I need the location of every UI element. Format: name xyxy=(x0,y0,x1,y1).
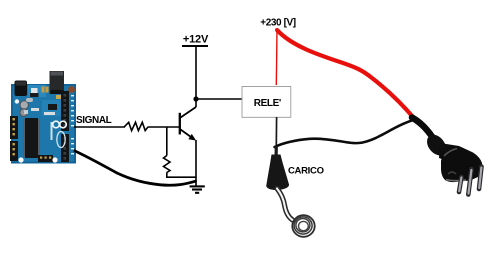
svg-text:RELE': RELE' xyxy=(254,98,281,109)
svg-text:+12V: +12V xyxy=(183,34,209,46)
mounting hole xyxy=(52,157,57,162)
+12V rail bar xyxy=(182,45,208,47)
ATmega IC xyxy=(23,119,26,157)
mounting hole xyxy=(18,157,23,162)
small parts xyxy=(31,108,39,111)
plug pin 1 xyxy=(459,177,462,192)
ARDUINO silk text hint xyxy=(51,122,53,140)
crystal xyxy=(26,98,33,102)
pin labels silkscreen right margin xyxy=(71,95,74,154)
plug pin 3 xyxy=(479,167,482,190)
load wire tube xyxy=(277,189,293,221)
header strip left xyxy=(10,116,18,139)
wire R2 to emitter rail xyxy=(167,173,196,178)
Arduino board U1 xyxy=(10,71,76,164)
capacitor C2 xyxy=(20,109,28,117)
USB connector xyxy=(50,71,65,94)
plug pin 2 xyxy=(468,169,471,195)
plug body xyxy=(441,146,483,182)
polyfuse xyxy=(68,86,75,93)
board PCB xyxy=(11,84,76,164)
wire R1 to base xyxy=(148,126,179,128)
capacitor C1 xyxy=(20,101,28,109)
UNO label oval xyxy=(57,132,65,148)
ground xyxy=(190,186,205,192)
relay K1 box xyxy=(242,87,291,118)
wire node to relay xyxy=(196,98,242,100)
wire black mains from plug xyxy=(275,120,415,147)
node dot 230V red xyxy=(275,28,279,32)
plug strain boot xyxy=(423,131,450,159)
load boot stem xyxy=(275,146,278,156)
header strip right xyxy=(61,91,69,131)
plug body highlight xyxy=(444,149,457,157)
ISP header xyxy=(38,155,53,162)
Arduino infinity logo xyxy=(53,121,67,128)
wire emitter down xyxy=(195,140,197,186)
load boot cone xyxy=(266,155,289,191)
wire Arduino GND curve xyxy=(75,151,196,185)
wire red mains cable xyxy=(278,31,416,121)
svg-text:CARICO: CARICO xyxy=(288,166,324,177)
barrel jack J1 xyxy=(15,81,28,97)
wire +12V to collector xyxy=(195,46,197,107)
load coil rings xyxy=(292,215,314,237)
wire Arduino to R1 xyxy=(74,126,125,128)
voltage regulator xyxy=(31,88,38,94)
mounting hole top-left xyxy=(15,99,19,103)
wire relay to load xyxy=(275,117,277,155)
svg-text:+230 [V]: +230 [V] xyxy=(260,17,296,28)
plug P1 xyxy=(412,118,483,195)
svg-text:SIGNAL: SIGNAL xyxy=(76,115,112,126)
plug cable xyxy=(412,118,433,139)
gold pads top xyxy=(42,87,45,93)
wire red thin 230V to relay xyxy=(275,30,278,85)
resistor R2 xyxy=(164,156,171,173)
plug boot-body bridge xyxy=(439,143,459,162)
resistor R1 xyxy=(124,122,148,130)
node dot collector xyxy=(193,96,198,101)
transistor Q1 xyxy=(180,107,196,141)
wire base node down to R2 xyxy=(166,127,168,156)
